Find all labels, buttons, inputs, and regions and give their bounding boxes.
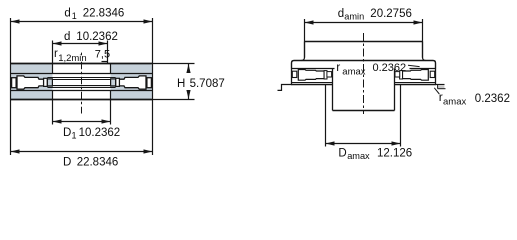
svg-text:22.8346: 22.8346	[77, 157, 119, 169]
roller right end cap	[116, 78, 120, 86]
housing block	[333, 69, 395, 111]
dimension line d1	[11, 19, 153, 23]
svg-text:5.7087: 5.7087	[190, 78, 225, 90]
centre line right figure	[363, 33, 365, 114]
cage end piece right	[147, 78, 152, 88]
bearing side edge right right-figure	[435, 69, 437, 85]
dimension line D1	[53, 119, 111, 123]
cage rail upper outer	[47, 77, 115, 79]
svg-text:amax: amax	[443, 97, 466, 108]
cage block left	[47, 79, 52, 86]
extension line Damax left	[325, 85, 327, 147]
bottom washer inner face	[11, 90, 153, 92]
bearing top edge	[10, 63, 153, 65]
roller right right-figure	[403, 70, 429, 81]
roller right cap right-figure	[400, 71, 403, 79]
cage end piece right right-figure	[430, 71, 435, 77]
bearing bottom edge	[10, 99, 153, 101]
dimension line Damax	[326, 141, 401, 145]
svg-text:D: D	[338, 148, 346, 160]
dimension tick 7,5	[102, 61, 108, 63]
dimension line d	[53, 41, 108, 45]
svg-text:0.2362: 0.2362	[373, 62, 407, 74]
bottom washer top face right segment	[395, 82, 436, 84]
dimension line damin	[305, 20, 423, 24]
bearing side edge left right-figure	[291, 69, 293, 85]
washer block right (blue fill full height)	[111, 64, 153, 99]
extension line right outer	[152, 18, 154, 155]
svg-text:10.2362: 10.2362	[79, 127, 121, 139]
svg-text:10.2362: 10.2362	[76, 31, 118, 43]
cage rail upper inner	[47, 79, 115, 81]
top washer inner face	[11, 73, 153, 75]
svg-text:20.2756: 20.2756	[370, 8, 412, 20]
svg-text:amax: amax	[342, 66, 365, 77]
washer block left (blue fill full height)	[11, 64, 53, 99]
leader r amax right	[434, 88, 439, 94]
svg-text:1: 1	[72, 131, 77, 141]
svg-text:1: 1	[72, 11, 77, 21]
dimension line D	[11, 149, 153, 153]
cage block left right-figure	[327, 72, 332, 77]
bore edge top-right	[110, 64, 112, 74]
top washer band right figure	[292, 61, 436, 69]
roller left right-figure	[298, 70, 324, 81]
extension line D1 left	[52, 100, 54, 125]
H arrow top	[186, 64, 190, 73]
svg-text:amax: amax	[347, 151, 370, 161]
roller left	[17, 76, 44, 89]
svg-text:D: D	[63, 127, 71, 139]
svg-text:H: H	[177, 78, 185, 90]
centre line vertical	[81, 53, 83, 56]
svg-text:22.8346: 22.8346	[83, 8, 125, 20]
extension line d left	[52, 41, 54, 64]
svg-text:d: d	[64, 8, 70, 20]
svg-text:r: r	[336, 60, 340, 74]
H extension line top	[153, 63, 195, 65]
extension line D1 right	[110, 100, 112, 125]
svg-text:amin: amin	[344, 12, 364, 22]
bearing bottom edge right segment	[395, 84, 436, 86]
leader r amax left	[408, 65, 420, 66]
roller left end cap	[44, 78, 48, 86]
bearing bottom edge left segment	[291, 84, 333, 86]
shaft step right	[436, 85, 446, 89]
cage rail lower outer	[47, 86, 115, 88]
extension line left outer	[10, 18, 12, 155]
cage rail lower inner	[47, 85, 115, 87]
svg-text:7,5: 7,5	[95, 48, 110, 60]
shaft step left	[278, 85, 292, 91]
cage end piece left	[12, 78, 17, 88]
svg-text:0.2362: 0.2362	[475, 93, 510, 105]
cage block right right-figure	[395, 72, 400, 77]
bore edge bottom-left	[52, 91, 54, 100]
svg-text:1,2min: 1,2min	[58, 53, 87, 64]
extension line damin right	[422, 19, 424, 42]
extension line damin left	[304, 19, 306, 42]
roller left cap right-figure	[324, 71, 327, 79]
bore edge bottom-right	[110, 91, 112, 100]
shaft block	[301, 42, 425, 61]
bore edge top-left	[52, 64, 54, 74]
svg-text:d: d	[338, 8, 344, 20]
roller right	[119, 76, 146, 89]
H arrow bottom	[186, 90, 190, 99]
svg-text:d: d	[64, 31, 70, 43]
svg-text:12.126: 12.126	[377, 148, 412, 160]
cage block right	[111, 79, 116, 86]
cage end piece left right-figure	[292, 71, 297, 77]
bottom washer top face left segment	[292, 82, 333, 84]
svg-text:D: D	[63, 157, 71, 169]
extension line Damax right	[400, 85, 402, 147]
extension line d right	[107, 41, 109, 64]
H extension line bottom	[153, 99, 195, 101]
